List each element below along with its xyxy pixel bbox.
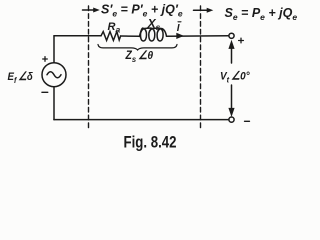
arrowhead current I bbox=[176, 33, 184, 39]
svg-text:S′e = P′e + jQ′e: S′e = P′e + jQ′e bbox=[101, 3, 183, 19]
svg-text:Ra: Ra bbox=[108, 21, 121, 35]
svg-text:Fig. 8.42: Fig. 8.42 bbox=[123, 133, 176, 152]
resistor Ra zigzag bbox=[101, 32, 121, 41]
svg-text:Xs: Xs bbox=[147, 17, 161, 33]
wire left vertical upper bbox=[53, 36, 55, 63]
Ibar overline bbox=[178, 21, 181, 23]
plus sign source bbox=[43, 57, 48, 62]
dashed boundary left bbox=[88, 6, 90, 130]
node terminal top bbox=[229, 33, 234, 38]
svg-text:Ef ∠δ: Ef ∠δ bbox=[8, 70, 34, 85]
Vt arrow shaft upper bbox=[231, 48, 233, 63]
source U1 circle bbox=[42, 63, 66, 87]
wire left vertical lower bbox=[53, 87, 55, 120]
wire between resistor and inductor bbox=[121, 35, 140, 37]
power flow arrow left shaft bbox=[83, 9, 96, 11]
wire top left horizontal bbox=[54, 35, 101, 37]
plus sign top terminal bbox=[239, 38, 244, 43]
wire bottom horizontal bbox=[54, 119, 229, 121]
underbrace Zs bbox=[98, 45, 177, 51]
minus sign source bbox=[42, 91, 48, 93]
minus sign bottom terminal bbox=[245, 120, 250, 122]
wire inductor to node bbox=[167, 35, 229, 37]
arrowhead power right bbox=[207, 8, 214, 13]
power flow arrow right shaft bbox=[194, 9, 209, 11]
Vt arrow shaft lower bbox=[231, 85, 233, 109]
svg-text:Se = Pe + jQe: Se = Pe + jQe bbox=[225, 6, 298, 22]
svg-text:Zs ∠θ: Zs ∠θ bbox=[125, 50, 154, 65]
arrowhead power left bbox=[93, 8, 100, 13]
source sine bbox=[47, 72, 61, 78]
svg-text:Vt ∠0°: Vt ∠0° bbox=[220, 70, 250, 85]
arrowhead Vt down bbox=[228, 108, 234, 117]
inductor Xs coil bbox=[139, 28, 166, 41]
dashed boundary right bbox=[200, 6, 202, 130]
arrowhead Vt up bbox=[228, 40, 234, 49]
svg-text:I: I bbox=[177, 23, 180, 34]
node terminal bottom bbox=[229, 117, 234, 122]
